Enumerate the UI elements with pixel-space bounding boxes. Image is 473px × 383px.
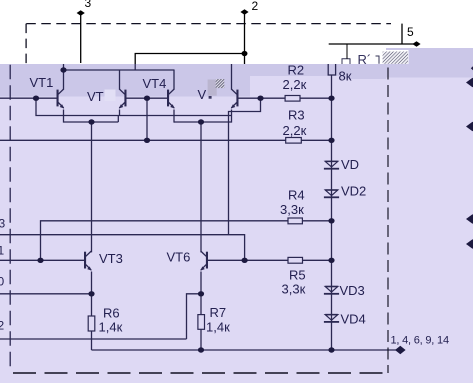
node base bus (144, 96, 150, 101)
wire VT2 collector (119, 70, 121, 90)
node R2/VT5 (257, 96, 263, 101)
node rail R7 (198, 347, 204, 352)
wire VT4 collector (173, 70, 175, 90)
resistor R3 (286, 138, 302, 144)
wire L from R2 node down (229, 98, 261, 235)
wire R5 to bus (303, 259, 332, 261)
resistor R4 (288, 218, 302, 224)
resistor R2 (285, 96, 300, 102)
border left upper (25, 24, 27, 64)
wire stub rail up (63, 64, 65, 71)
wire bus jog (117, 116, 119, 123)
wire pin10 to R6 node (0, 293, 92, 295)
wire VT6 base / R5 (208, 259, 288, 261)
wire R4 jog (41, 221, 289, 260)
wire emitter bus 1 (64, 121, 119, 123)
diode VD3 (324, 287, 339, 294)
wire R2 to bus (300, 97, 332, 99)
node VT3 base jog (37, 258, 43, 263)
svg-text:VD2: VD2 (341, 184, 366, 199)
transistor VT1 (57, 89, 65, 109)
border right (387, 50, 389, 373)
wire R4 to bus (302, 220, 331, 222)
svg-text:1,4к: 1,4к (99, 320, 123, 335)
node emitter bus 2 (198, 119, 204, 124)
svg-text:3,3к: 3,3к (280, 202, 304, 217)
cover over VT5 label (208, 80, 217, 96)
transistor VT5 (231, 89, 239, 109)
pin tip right edge extra (471, 66, 473, 70)
resistor R7 (198, 315, 205, 330)
svg-text:R6: R6 (103, 306, 120, 321)
diode VD4 (324, 315, 339, 322)
svg-text:0: 0 (0, 275, 5, 289)
transistor VT2 (119, 89, 127, 109)
pin 5 diamond (412, 41, 420, 47)
node rail bus (328, 347, 334, 352)
node R7 top (198, 291, 204, 296)
svg-text:R7: R7 (210, 305, 227, 320)
svg-text:2: 2 (252, 0, 259, 13)
node bus R3 (328, 138, 334, 143)
svg-text:3: 3 (85, 0, 92, 10)
border bottom (13, 372, 388, 374)
hatch block R1 (381, 50, 409, 64)
wire VT2 emitter (119, 110, 121, 117)
wire R7 bottom lead (200, 329, 202, 350)
darker bands (0, 64, 250, 97)
svg-text:1,4к: 1,4к (206, 320, 230, 335)
svg-text:V: V (198, 87, 207, 102)
wire node to R3 line (146, 98, 148, 140)
svg-text:1: 1 (0, 244, 5, 258)
wire VT4 emitter (173, 110, 175, 123)
node bus R5 (328, 258, 334, 263)
transistor VT6 (200, 251, 208, 270)
node bus R4 (328, 218, 334, 223)
svg-text:R´: R´ (358, 52, 372, 67)
wire R3 to bus (301, 139, 331, 141)
border left lower (9, 65, 11, 369)
wire VT5 collector up (231, 64, 233, 90)
small box remains near 8k (342, 44, 379, 64)
node R3 mid (144, 138, 150, 143)
svg-text:VD: VD (341, 157, 359, 172)
wire VT3 collector column (91, 122, 93, 252)
svg-text:VT3: VT3 (99, 251, 123, 266)
wire pin12 long (0, 338, 187, 340)
node VT6 base (242, 258, 248, 263)
hatch streak VT5 (216, 79, 225, 88)
svg-text:VT6: VT6 (167, 250, 191, 265)
wire VT3 emitter down (91, 272, 93, 317)
wire VT3 base (0, 259, 84, 261)
pin diamond right edge 1 (466, 78, 473, 88)
wire base VT1 from left edge (0, 97, 57, 99)
pin 3 diamond (77, 10, 85, 16)
svg-text:VT: VT (87, 89, 104, 104)
border top (26, 23, 391, 25)
node R6 top (88, 291, 94, 296)
svg-text:VT1: VT1 (30, 75, 54, 90)
wire R7 node jog (187, 294, 202, 339)
pin diamond right edge 3 (466, 214, 473, 224)
pin diamond rail end (395, 346, 406, 354)
wire VT6 emitter down (200, 272, 202, 315)
wire emitter bus 2 (174, 121, 232, 123)
svg-text:VT4: VT4 (143, 76, 167, 91)
resistor R6 (88, 316, 95, 331)
svg-text:R4: R4 (288, 188, 305, 203)
svg-text:3,3к: 3,3к (282, 282, 306, 297)
wire VT6 collector column (200, 122, 202, 252)
wire base bus VT2-VT4 (127, 97, 168, 99)
wire VT1 collector (63, 70, 65, 90)
svg-text:2: 2 (0, 319, 5, 333)
svg-text:5: 5 (407, 25, 414, 39)
node pin 2 (242, 51, 248, 56)
node VT1 base (33, 96, 39, 101)
transistor VT3 (84, 251, 92, 270)
svg-text:R2: R2 (288, 63, 305, 78)
svg-text:8к: 8к (339, 69, 352, 84)
svg-text:VD4: VD4 (341, 312, 366, 327)
svg-text:R5: R5 (289, 268, 306, 283)
wire VT5 emitter (231, 110, 233, 123)
svg-text:2,2к: 2,2к (283, 123, 307, 138)
node emitter bus 1 (88, 119, 94, 124)
pin 2 diamond (240, 9, 248, 15)
diode VD1 (324, 161, 339, 168)
cover over VT2 label (105, 90, 116, 102)
svg-text:1, 4, 6, 9, 14: 1, 4, 6, 9, 14 (391, 335, 449, 347)
pin 3 wire (80, 15, 82, 63)
speck under V (209, 96, 212, 99)
wire top rail (64, 69, 175, 71)
lavender light regions (0, 64, 386, 383)
svg-text:3: 3 (0, 217, 6, 231)
node bus R2 (328, 96, 334, 101)
svg-text:VD3: VD3 (340, 283, 365, 298)
wire R6 bottom lead (91, 331, 93, 350)
wire node A jog (36, 98, 232, 115)
pin 5 wire (329, 43, 416, 45)
wire base VT5 to R2 (239, 97, 286, 99)
pin diamond right edge 2 (466, 122, 473, 132)
resistor R5 (288, 257, 303, 263)
pin diamond right edge 4 (466, 239, 473, 249)
resistor R1 8k (vertical, top open under white) (328, 62, 335, 75)
wire VT1 emitter (63, 110, 65, 123)
pin 2 jog (135, 54, 244, 65)
node rail/VT1 (60, 67, 66, 72)
wire ground rail (92, 349, 401, 351)
pin 2 wire (244, 14, 246, 64)
transistor VT4 (167, 89, 175, 109)
diode VD2 (324, 190, 339, 197)
wire long R3 line (0, 139, 286, 141)
pin 5 stub (401, 24, 403, 44)
svg-text:2,2к: 2,2к (283, 77, 307, 92)
svg-text:R3: R3 (288, 108, 305, 123)
wire main bus (331, 75, 333, 350)
wire pin2 drop to rail (134, 64, 136, 71)
wire pin13 long (0, 235, 245, 261)
